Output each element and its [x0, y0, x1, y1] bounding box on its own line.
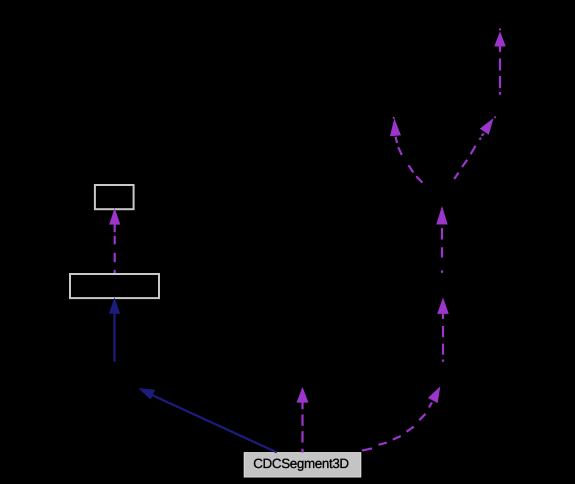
- edge right chain node 3 to upper-right hidden node (arrowhead): [480, 118, 494, 135]
- node CDCSegment3D box: [244, 453, 361, 477]
- edge inheritance up to mid-left box (arrowhead): [109, 297, 120, 314]
- edge CDCSegment3D to right chain node 1 (arrowhead): [428, 386, 440, 403]
- edge right chain node 1 to node 2 (arrowhead): [437, 297, 449, 314]
- edge CDCSegment3D to hidden middle node (arrowhead): [297, 387, 309, 403]
- edge right chain node 2 to node 3 (arrowhead): [436, 206, 447, 225]
- node box mid-left (empty label): [70, 274, 159, 298]
- edge upper-right hidden node to topmost hidden node (dashed line): [499, 47, 501, 95]
- edge upper-right hidden node to topmost hidden node (tip dash dot): [499, 28, 501, 30]
- node box top-left (empty label): [95, 185, 134, 209]
- edge right chain node 3 to upper-left hidden node (curved dashed line): [396, 137, 423, 183]
- edge right chain node 3 to upper-right hidden node (straight dashed line): [454, 134, 484, 179]
- edge CDCSegment3D to hidden middle node (dashed line): [301, 402, 303, 452]
- edge right chain node 3 to upper-left hidden node (tip dash dot): [393, 117, 395, 119]
- edge inheritance CDCSegment3D to hidden base node (solid diagonal line): [151, 395, 277, 453]
- edge CDCSegment3D to right chain node 1 (curved dashed line): [362, 402, 432, 450]
- edge right chain node 2 to node 3 (dashed line): [441, 228, 443, 273]
- edge inheritance up to mid-left box (solid line): [113, 312, 115, 362]
- edge upper-right hidden node to topmost hidden node (arrowhead): [494, 31, 506, 46]
- edge right chain node 3 to upper-left hidden node (arrowhead): [390, 118, 401, 136]
- edge right chain node 1 to node 2 (dashed line): [442, 314, 444, 362]
- edge mid-left box to top-left box (dashed line): [114, 225, 116, 274]
- edge inheritance CDCSegment3D to hidden base node (arrowhead): [138, 388, 155, 400]
- svg-text:CDCSegment3D: CDCSegment3D: [253, 456, 349, 471]
- edge right chain node 3 to upper-right hidden node (tip dash dot): [494, 116, 496, 118]
- edge mid-left box to top-left box (arrowhead): [109, 208, 120, 225]
